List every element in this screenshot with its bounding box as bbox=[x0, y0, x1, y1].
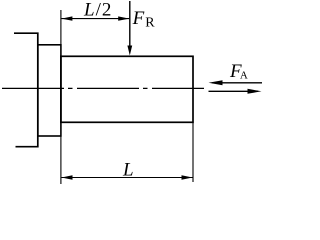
svg-text:L: L bbox=[122, 160, 134, 181]
force FA lower arrow (pointing right) bbox=[209, 90, 259, 92]
svg-text:L/2: L/2 bbox=[83, 0, 112, 21]
force FR line bbox=[129, 1, 131, 48]
svg-text:F: F bbox=[132, 8, 145, 29]
dimension L right arrowhead bbox=[182, 175, 193, 179]
dimension L/2 left arrowhead bbox=[61, 16, 72, 20]
shaft body bbox=[61, 56, 193, 122]
dimension L/2 right arrowhead bbox=[118, 16, 129, 20]
dimension L/2 extension line bbox=[60, 10, 62, 45]
dimension L left arrowhead bbox=[62, 175, 73, 179]
svg-text:A: A bbox=[240, 69, 248, 81]
force FR arrowhead (down onto shaft) bbox=[127, 46, 132, 56]
dimension L line bbox=[62, 177, 193, 179]
dimension L/2 line bbox=[61, 18, 129, 20]
force FA upper arrow (pointing left) bbox=[212, 82, 262, 84]
collar (shaft flange in wall) bbox=[38, 45, 61, 136]
dimension L left extension line bbox=[60, 136, 62, 184]
centerline (shaft axis, dash-dot) bbox=[2, 87, 204, 89]
wall support bracket bbox=[14, 32, 38, 147]
svg-text:R: R bbox=[145, 16, 155, 31]
dimension L right extension line bbox=[192, 122, 194, 182]
